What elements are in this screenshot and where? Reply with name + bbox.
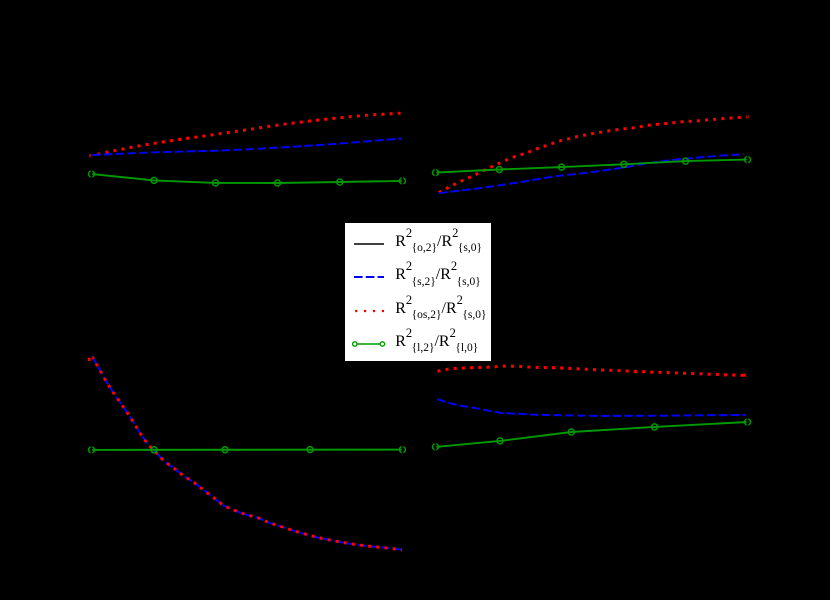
subplot 2 (top-right): red dotted saturating curve [439, 117, 749, 193]
subplot 4 (bottom-right): red dotted gentle dome [438, 366, 749, 376]
subplot 3 markers [89, 447, 406, 453]
row 3: red dotted [345, 294, 491, 328]
stray first red dot (bottom-left) [88, 358, 91, 361]
subplot 1 (top-left): green line [92, 174, 403, 183]
subplot 3 (bottom-left): red dotted decay curve (overlapping) [92, 357, 403, 550]
legend [344, 222, 492, 362]
row 2: blue dashed [345, 260, 491, 294]
subplot 3 (bottom-left): blue dashed decay curve [92, 357, 402, 550]
subplot 1 (top-left): blue dashed line [92, 139, 402, 156]
subplot 4 markers [433, 419, 751, 450]
row 4: green with markers [345, 327, 491, 361]
black axis lines over edge markers [92, 45, 748, 556]
subplot 2 (top-right): blue dashed line [439, 154, 744, 193]
subplot 1 (top-left): red dotted curve [89, 113, 400, 156]
subplot 1 markers [89, 171, 406, 186]
subplot 2 markers [433, 157, 751, 176]
last red dot (bottom-right) [743, 374, 746, 377]
subplot 4 (bottom-right): green rising line [436, 422, 748, 447]
subplot 2 (top-right): green line [436, 160, 748, 173]
row 1: black solid [345, 227, 491, 261]
subplot 3 (bottom-left): green horizontal line [92, 449, 403, 451]
subplot 4 (bottom-right): blue dashed dip curve [437, 399, 745, 416]
